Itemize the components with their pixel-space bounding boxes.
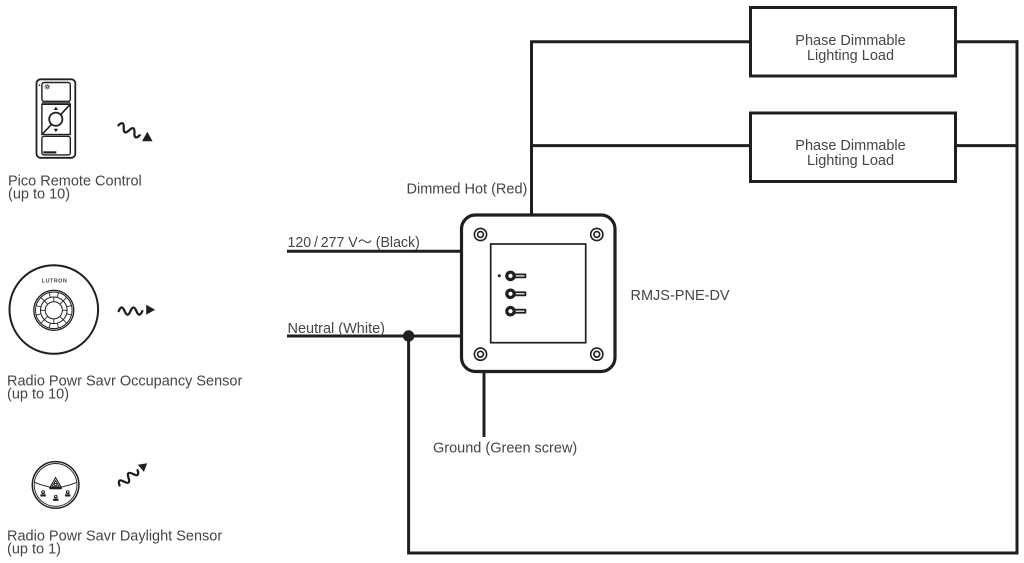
daylight sensor body	[32, 462, 79, 509]
wire terminal 1	[505, 271, 526, 282]
occupancy sensor body	[10, 265, 99, 354]
wire terminal 2	[505, 289, 526, 300]
RF signal from occupancy sensor	[119, 305, 155, 315]
label: Neutral (White)	[288, 321, 386, 337]
pilot dot left of terminal 1	[498, 274, 501, 277]
wire terminal 3	[505, 306, 526, 317]
wire: neutral feed	[287, 335, 462, 338]
wire: 120/277 V hot feed	[287, 250, 462, 253]
wire: ground wire from module bottom	[483, 371, 486, 437]
label: 120/277 V~ (Black)	[288, 235, 420, 251]
module screw top-left	[474, 228, 486, 240]
label: Dimmed Hot (Red)	[407, 182, 528, 198]
svg-text:Dimmed Hot (Red): Dimmed Hot (Red)	[407, 182, 528, 198]
RF signal from Pico remote	[117, 122, 153, 141]
svg-text:Neutral (White): Neutral (White)	[288, 321, 386, 337]
svg-text:(up to 10): (up to 10)	[8, 187, 70, 203]
svg-text:Lighting Load: Lighting Load	[807, 48, 894, 64]
module screw top-right	[591, 228, 603, 240]
module wiring compartment	[491, 244, 586, 343]
label: Radio Powr Savr Occupancy Sensor (up to 10)	[7, 374, 242, 403]
svg-text:120 / 277 V〜 (Black): 120 / 277 V〜 (Black)	[288, 235, 420, 251]
svg-text:Lighting Load: Lighting Load	[807, 153, 894, 169]
wire: dimmed hot vertical from module top	[530, 42, 533, 215]
svg-text:Ground (Green screw): Ground (Green screw)	[433, 441, 577, 457]
wire: right vertical return bus	[1016, 40, 1019, 554]
label: Radio Powr Savr Daylight Sensor (up to 1)	[7, 529, 222, 558]
load 2: Phase Dimmable Lighting Load box	[751, 113, 956, 182]
label: Pico Remote Control (up to 10)	[8, 174, 142, 203]
wire: neutral drop from junction to bottom return	[407, 336, 410, 555]
module screw bottom-right	[591, 348, 603, 360]
label: RMJS-PNE-DV	[631, 288, 730, 304]
svg-text:Phase Dimmable: Phase Dimmable	[795, 138, 905, 154]
Pico remote control body	[37, 79, 76, 158]
power module RMJS-PNE-DV body	[462, 215, 616, 372]
svg-text:Phase Dimmable: Phase Dimmable	[795, 33, 905, 49]
wire: load 1 right to return bus	[955, 40, 1019, 43]
wire: dimmed hot horizontal to load 1	[530, 40, 751, 43]
load 1: Phase Dimmable Lighting Load box	[751, 8, 956, 77]
svg-text:(up to 1): (up to 1)	[7, 542, 61, 558]
junction: neutral node	[403, 330, 414, 341]
RF signal from daylight sensor	[117, 463, 147, 488]
wire: load 2 right to return bus	[955, 144, 1019, 147]
module screw bottom-left	[474, 348, 486, 360]
label: Ground (Green screw)	[433, 441, 577, 457]
svg-text:LUTRON: LUTRON	[42, 278, 68, 284]
wire: bottom horizontal return	[409, 552, 1019, 555]
svg-text:(up to 10): (up to 10)	[7, 387, 69, 403]
svg-text:RMJS-PNE-DV: RMJS-PNE-DV	[631, 288, 730, 304]
wire: dimmed hot horizontal to load 2	[530, 144, 751, 147]
